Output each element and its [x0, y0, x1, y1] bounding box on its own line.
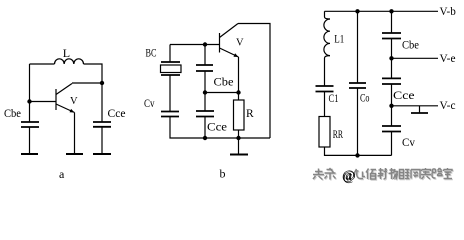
svg-text:a: a	[59, 167, 65, 181]
wire Co to bottom (c)	[357, 88, 359, 155]
wire Cce chain (b)	[204, 93, 206, 112]
inductor L	[55, 59, 84, 64]
emitter arrowhead (a)	[70, 109, 75, 113]
wire Cce to V-c node (c)	[391, 84, 393, 106]
node bottom Cce junction (b)	[203, 136, 207, 140]
svg-text:Cbe: Cbe	[4, 106, 21, 120]
ground (b)	[230, 154, 248, 156]
transistor V (a)	[30, 84, 75, 113]
resistor RR	[319, 117, 330, 148]
capacitor Cv (b)	[161, 112, 179, 117]
wire Cbe to V-e node (c)	[391, 39, 393, 59]
node V-c junction (c)	[389, 104, 393, 108]
wire top right segment (a)	[84, 64, 103, 83]
svg-text:V-b: V-b	[440, 4, 456, 18]
svg-text:Cv: Cv	[144, 96, 155, 110]
wire emitter (a)	[74, 113, 76, 155]
ground Cbe (a)	[21, 153, 38, 155]
resistor R (b)	[234, 100, 245, 130]
svg-text:Cce: Cce	[207, 120, 227, 134]
wire emitter to R (b)	[238, 93, 240, 101]
node base junction (b)	[203, 42, 207, 46]
capacitor Cce (c)	[382, 78, 401, 84]
svg-text:V-e: V-e	[440, 51, 456, 65]
wire RR to bottom (c)	[325, 147, 392, 155]
capacitor Cbe (a)	[21, 122, 39, 127]
capacitor Cv (c)	[382, 126, 401, 132]
svg-text:C1: C1	[329, 91, 339, 105]
wire to Cv (c)	[391, 106, 393, 126]
node bottom R junction (b)	[236, 136, 240, 140]
crystal BC	[161, 62, 180, 75]
wire ground stub (b)	[238, 138, 240, 155]
wire L1 to C1 (c)	[325, 56, 331, 86]
wire Cce to bottom (b)	[204, 117, 206, 139]
node emitter junction (b)	[236, 90, 240, 94]
transistor V (b)	[220, 24, 239, 58]
wire emitter link (b)	[205, 92, 239, 94]
wire C1 to RR (c)	[324, 92, 326, 117]
capacitor C1	[316, 86, 334, 92]
node Cbe/Cce junction (b)	[203, 90, 207, 94]
wire Cbe chain (c)	[391, 11, 393, 33]
wire V-c (c)	[392, 105, 439, 107]
wire Cv to bottom (b)	[170, 117, 270, 139]
svg-text:L1: L1	[334, 32, 344, 46]
svg-text:R: R	[246, 108, 254, 120]
node V-e junction (c)	[389, 56, 393, 60]
node bottom Co junction (c)	[355, 153, 359, 157]
svg-text:V: V	[236, 38, 244, 49]
svg-text:V-c: V-c	[440, 98, 456, 112]
wire V-e (c)	[392, 57, 439, 59]
wire to L1 (c)	[325, 11, 331, 19]
node base junction (a)	[27, 99, 31, 103]
svg-text:Co: Co	[360, 91, 370, 105]
svg-text:L: L	[63, 46, 70, 60]
wire base (b)	[170, 44, 220, 46]
wire Cv to bottom (c)	[391, 132, 393, 156]
emitter arrowhead (b)	[234, 53, 239, 57]
watermark 头条@亿佰特物联网实验室	[313, 168, 453, 185]
svg-text:BC: BC	[146, 46, 157, 60]
wire Cbe chain top (b)	[204, 45, 206, 66]
wire Co chain (c)	[357, 11, 359, 83]
wire R to bottom (b)	[238, 130, 240, 138]
capacitor Cce (b)	[196, 111, 214, 117]
wire to Cce (c)	[391, 58, 393, 78]
node collector junction (a)	[100, 81, 104, 85]
ground Cce (a)	[93, 153, 111, 155]
svg-text:V: V	[70, 96, 78, 107]
svg-text:Cbe: Cbe	[402, 38, 419, 52]
svg-text:RR: RR	[333, 127, 343, 141]
svg-text:Cbe: Cbe	[214, 75, 234, 89]
capacitor Cbe (b)	[196, 65, 213, 71]
wire Cce to ground (a)	[101, 127, 103, 154]
svg-text:@: @	[342, 169, 355, 184]
svg-text:Cce: Cce	[393, 88, 415, 102]
capacitor Co	[349, 83, 366, 88]
wire emitter vertical (b)	[238, 57, 240, 93]
ground emitter (a)	[66, 153, 83, 155]
wire top rail (c)	[325, 10, 439, 12]
svg-text:Cv: Cv	[402, 135, 415, 149]
node top Cbe junction (c)	[389, 9, 393, 13]
wire crystal top (b)	[169, 45, 171, 63]
wire right rail (a)	[101, 83, 103, 122]
wire top left segment (a)	[30, 63, 55, 65]
wire collector top (b)	[238, 24, 270, 139]
svg-text:Cce: Cce	[108, 106, 126, 120]
wire collector horizontal (a)	[72, 82, 102, 84]
capacitor Cbe (c)	[382, 33, 401, 39]
wire left rail (a)	[29, 64, 31, 122]
wire Cbe to node (b)	[204, 71, 206, 93]
wire Cbe to ground (a)	[29, 127, 31, 154]
capacitor Cce (a)	[93, 122, 111, 127]
node top Co junction (c)	[355, 9, 359, 13]
svg-text:b: b	[220, 166, 226, 180]
ground on V-c wire (c)	[419, 106, 421, 113]
inductor L1	[324, 19, 330, 56]
wire crystal to Cv (b)	[169, 75, 171, 112]
